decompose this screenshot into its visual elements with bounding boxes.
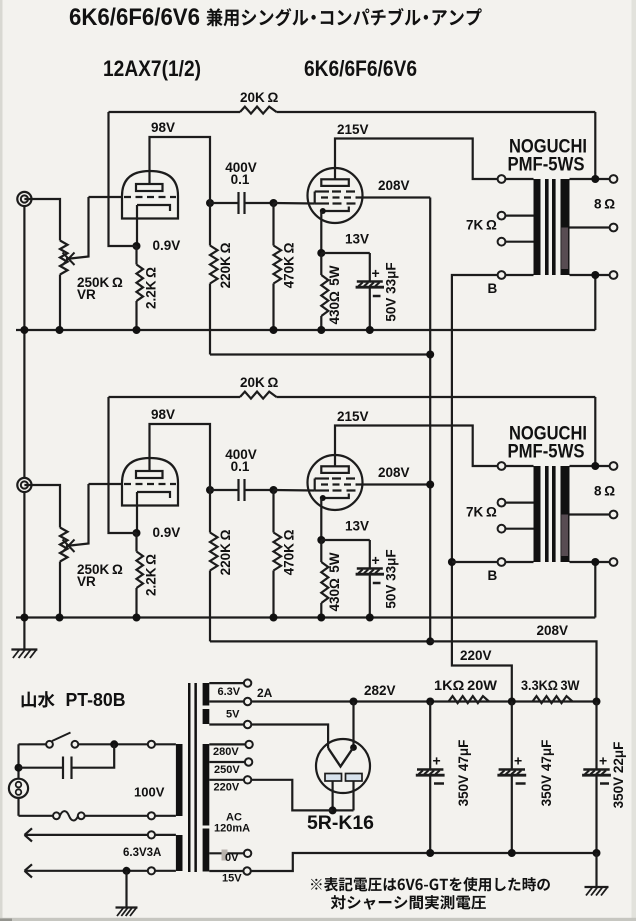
pentode V1 cathode — [321, 207, 349, 212]
node 0.9V (2) — [133, 529, 141, 537]
svg-text:PMF-5WS: PMF-5WS — [508, 442, 585, 463]
pentode V2 cathode — [321, 494, 349, 499]
wire bus1 up to OPT secondary — [594, 275, 596, 330]
svg-text:50V 33μF: 50V 33μF — [384, 262, 399, 321]
wire 0V bottom bus — [251, 853, 597, 871]
bus dots channel 1 — [20, 326, 28, 334]
svg-text:215V: 215V — [337, 409, 369, 424]
svg-text:470K Ω: 470K Ω — [282, 242, 297, 288]
wire 220V B+ rail — [452, 275, 512, 702]
T1 primary terminals — [505, 178, 533, 180]
svg-text:430Ω 5W: 430Ω 5W — [327, 265, 342, 324]
triode U2a cathode — [137, 492, 170, 498]
power switch SW — [46, 741, 53, 748]
svg-text:20K Ω: 20K Ω — [240, 90, 278, 105]
wire grid node to pentode g1 (2) — [274, 489, 315, 492]
triode U1a 12AX7 envelope — [122, 171, 178, 219]
node B+ rail / T2 primary — [448, 558, 456, 566]
svg-text:+: + — [372, 265, 380, 281]
svg-text:2.2K Ω: 2.2K Ω — [144, 554, 159, 596]
svg-text:2A: 2A — [257, 686, 273, 700]
triode U2a grid (dashed) — [124, 483, 176, 485]
node grid pentode (2) — [270, 486, 278, 494]
wire to chassis ground (PS) — [595, 853, 597, 887]
note line 1 — [311, 879, 322, 890]
svg-text:120mA: 120mA — [214, 823, 250, 835]
svg-text:6K6/6F6/6V6: 6K6/6F6/6V6 — [69, 4, 200, 31]
node screen rail / 208V line — [426, 637, 434, 645]
wire jack2 to volume pot — [24, 485, 60, 528]
svg-text:+: + — [372, 552, 380, 568]
wire 208V screen rail — [429, 198, 431, 642]
svg-text:13V: 13V — [345, 232, 369, 247]
feedback resistor R1f 20KΩ — [109, 111, 241, 113]
svg-text:0V: 0V — [225, 852, 239, 864]
filter capacitor C5 47μF — [429, 702, 431, 770]
svg-text:PT-80B: PT-80B — [66, 689, 126, 710]
resistor R2k 2.2KΩ cathode — [135, 533, 137, 552]
bus dots channel 2 — [20, 614, 28, 622]
svg-text:5R-K16: 5R-K16 — [307, 812, 374, 834]
wire 12AX7 plate2 to node (98V) — [150, 424, 211, 490]
heater feed arrows 6.3V3A — [25, 834, 148, 836]
node plate 2 (98V) — [206, 486, 214, 494]
pentode V1 6V6 envelope — [308, 168, 363, 223]
svg-text:0.9V: 0.9V — [153, 525, 181, 540]
svg-text:6K6/6F6/6V6: 6K6/6F6/6V6 — [304, 56, 417, 81]
node 282V/filter — [426, 698, 434, 706]
wire cathode2 down to 0.9V node — [136, 492, 138, 533]
T3 primary winding bars — [176, 744, 183, 816]
svg-text:350V 22μF: 350V 22μF — [611, 742, 626, 809]
svg-text:13V: 13V — [345, 519, 369, 534]
rectifier plates — [325, 774, 342, 782]
svg-text:215V: 215V — [337, 122, 369, 137]
svg-text:B: B — [488, 281, 498, 296]
label 山水 PT-80B — [22, 692, 36, 708]
svg-text:208V: 208V — [378, 178, 410, 193]
wire 208V line to PS — [430, 641, 596, 701]
svg-text:50V 33μF: 50V 33μF — [384, 549, 399, 608]
T3 secondary terminals and taps — [209, 682, 244, 684]
wire T2 B terminal to rail — [452, 561, 498, 563]
ground bus channel 1 — [16, 329, 595, 331]
node 220V tap — [508, 698, 516, 706]
bus dots (PS) — [426, 849, 434, 857]
triode U2a 12AX7 envelope — [122, 458, 178, 506]
resistor R5 1KΩ 20W — [449, 696, 490, 703]
svg-text:1KΩ 20W: 1KΩ 20W — [434, 678, 497, 693]
resistor R2L 220KΩ plate load — [209, 490, 211, 533]
filter capacitor C7 22μF — [595, 702, 597, 770]
svg-text:220V: 220V — [460, 648, 492, 663]
input jack J1 (L ch) — [17, 192, 31, 206]
wire 282V line — [251, 700, 596, 702]
wire plate V2 to OPT (215V) — [335, 426, 497, 467]
node plate 1 (98V) — [206, 199, 214, 207]
wire 208V plate-load rail (2) — [210, 640, 430, 642]
wire bus2 up to OPT secondary — [594, 562, 596, 618]
node feedback tap (1) — [591, 175, 599, 183]
rectifier filament — [352, 702, 354, 748]
svg-text:208V: 208V — [378, 465, 410, 480]
svg-text:12AX7(1/2): 12AX7(1/2) — [103, 56, 201, 81]
svg-text:220K Ω: 220K Ω — [218, 529, 233, 575]
triode U1a grid (dashed) — [124, 196, 176, 198]
output transformer T1 core — [534, 179, 541, 275]
triode U2a plate — [136, 471, 163, 478]
pot1 wiper arm — [66, 197, 89, 259]
svg-text:6.3V: 6.3V — [218, 686, 241, 698]
T2 secondary terminals — [570, 465, 610, 467]
svg-text:+: + — [514, 753, 522, 769]
svg-text:350V 47μF: 350V 47μF — [456, 740, 471, 807]
wire plate V1 to OPT (215V) — [335, 139, 497, 180]
wire plug bottom to fuse — [17, 798, 19, 816]
fuse F — [53, 812, 60, 819]
wire feedback to cathode node (2) — [109, 397, 137, 533]
wire rail to chassis ground — [23, 618, 25, 650]
wire jack1 to volume pot — [24, 199, 60, 241]
label 0V — [222, 850, 228, 861]
wire pot1 bottom to ground bus — [59, 275, 61, 331]
wire 12AX7 plate1 to node (98V) — [150, 137, 211, 203]
wire plates junction — [332, 781, 334, 810]
pentode V2 6V6 envelope — [308, 455, 363, 510]
wire 220V AC to plates — [251, 780, 332, 811]
wire fuse to T3 primary — [85, 815, 148, 817]
svg-text:0.1: 0.1 — [231, 172, 250, 187]
svg-text:7K Ω: 7K Ω — [466, 505, 497, 520]
wire wiper1 to 12AX7 grid — [89, 196, 123, 198]
pentode V1 plate — [321, 179, 349, 186]
svg-text:100V: 100V — [134, 785, 165, 800]
node 13V (1) — [317, 249, 325, 257]
svg-text:282V: 282V — [364, 683, 396, 698]
svg-text:20K Ω: 20K Ω — [240, 375, 278, 390]
resistor R1c 430Ω 5W — [320, 253, 322, 275]
svg-text:470K Ω: 470K Ω — [282, 529, 297, 575]
pentode V2 grids — [314, 479, 316, 491]
wire cathode V2 to 13V node — [320, 498, 322, 540]
wire 5V winding to filament — [251, 725, 328, 749]
paper edge shading — [0, 0, 3, 921]
node grid pentode (1) — [270, 199, 278, 207]
wire cathode1 down to 0.9V node — [136, 205, 138, 246]
svg-text:250V: 250V — [214, 764, 240, 776]
capacitor C1k 33μF bypass — [321, 252, 370, 254]
power transformer T3 core — [188, 683, 191, 872]
svg-text:15V: 15V — [222, 873, 242, 885]
svg-text:220V: 220V — [214, 782, 240, 794]
wire screen V1 to 208V rail — [357, 196, 431, 198]
svg-text:0.1: 0.1 — [231, 459, 250, 474]
ground (input) — [11, 648, 37, 650]
wire switch to T3 primary — [78, 743, 147, 745]
node 0.9V (1) — [133, 242, 141, 250]
resistor R2c 430Ω 5W — [320, 540, 322, 562]
AC plug — [9, 779, 28, 798]
resistor R2g 470KΩ grid leak — [272, 490, 274, 533]
resistor R1L 220KΩ plate load — [209, 203, 211, 246]
wire grid node to pentode g1 (1) — [274, 202, 315, 205]
node 13V (2) — [317, 536, 325, 544]
svg-text:220K Ω: 220K Ω — [218, 242, 233, 288]
svg-text:8 Ω: 8 Ω — [594, 197, 615, 212]
node rectifier cathode — [350, 698, 358, 706]
svg-text:7K Ω: 7K Ω — [466, 218, 497, 233]
node feedback tap (2) — [591, 462, 599, 470]
node screen rail / ch1 plate rail — [426, 351, 434, 359]
svg-text:+: + — [433, 753, 441, 769]
node 208V tap — [593, 698, 601, 706]
svg-text:VR: VR — [77, 287, 96, 302]
wire screen V2 to 208V rail — [357, 483, 431, 485]
wire wiper2 to 12AX7 grid — [89, 483, 123, 485]
wire pot2 bottom to ground bus — [59, 562, 61, 618]
T2 primary terminals — [505, 465, 533, 467]
svg-text:98V: 98V — [151, 120, 175, 135]
resistor R1g 470KΩ grid leak — [272, 203, 274, 246]
wire feedback to cathode node (1) — [109, 112, 137, 246]
pentode V1 grids — [314, 192, 316, 204]
svg-text:B: B — [488, 568, 498, 583]
T3 secondary winding bars — [203, 683, 210, 706]
svg-text:3.3KΩ 3W: 3.3KΩ 3W — [521, 678, 580, 693]
ground bus channel 2 — [16, 616, 595, 618]
svg-text:+: + — [599, 753, 607, 769]
coupling capacitor C2 0.1/400V — [210, 489, 239, 491]
potentiometer VR2 250K (body) — [60, 528, 68, 562]
svg-text:6.3V3A: 6.3V3A — [123, 847, 161, 859]
node secondary ground (1) — [591, 271, 599, 279]
svg-text:8 Ω: 8 Ω — [594, 484, 615, 499]
rectifier V5 5R-K16 envelope — [316, 739, 370, 793]
capacitor C2k 33μF bypass — [321, 539, 370, 541]
ground (heater) — [116, 906, 138, 908]
resistor R6 3.3KΩ 3W — [533, 696, 573, 703]
input jack J2 (R ch) — [17, 478, 31, 492]
pentode V2 plate — [321, 466, 349, 473]
filter capacitor C6 47μF — [511, 702, 513, 770]
node heater ground — [123, 867, 131, 875]
svg-text:VR: VR — [77, 574, 96, 589]
node screen rail / ch2 screen — [426, 481, 434, 489]
ground (PS) — [585, 886, 609, 888]
pot2 wiper arm — [66, 484, 89, 546]
wire cathode V1 to 13V node — [320, 211, 322, 253]
svg-text:2.2K Ω: 2.2K Ω — [144, 267, 159, 309]
coupling capacitor C1 0.1/400V — [210, 202, 239, 204]
output transformer T2 core — [534, 466, 541, 562]
svg-text:98V: 98V — [151, 407, 175, 422]
svg-text:208V: 208V — [537, 623, 569, 638]
note line 2 — [331, 895, 346, 909]
title (Japanese part) — [207, 8, 223, 26]
node secondary ground (2) — [591, 558, 599, 566]
wire plug top to switch — [17, 744, 19, 778]
T1 secondary terminals — [570, 178, 610, 180]
wire 208V plate-load rail (1) — [210, 353, 430, 355]
svg-text:PMF-5WS: PMF-5WS — [508, 155, 585, 176]
feedback resistor R2f 20KΩ — [109, 396, 241, 398]
resistor R1k 2.2KΩ cathode — [135, 246, 137, 265]
svg-text:350V 47μF: 350V 47μF — [539, 740, 554, 807]
potentiometer VR1 250K (body) — [60, 241, 68, 275]
svg-text:430Ω 5W: 430Ω 5W — [327, 552, 342, 611]
T3 primary terminals — [155, 743, 176, 745]
svg-text:0.9V: 0.9V — [153, 238, 181, 253]
node line cap top — [110, 740, 118, 748]
wire left ground rail — [23, 206, 25, 330]
svg-text:5V: 5V — [226, 709, 240, 721]
line capacitor — [15, 764, 23, 772]
triode U1a plate — [136, 184, 163, 191]
svg-text:280V: 280V — [213, 746, 239, 758]
triode U1a cathode — [137, 205, 170, 211]
